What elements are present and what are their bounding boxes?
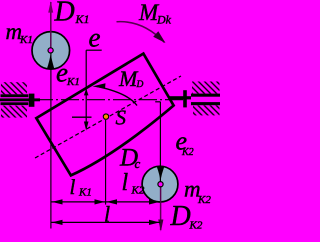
- svg-text:D: D: [54, 0, 75, 28]
- S center of mass dot: [103, 114, 108, 119]
- e arrow down: [84, 122, 89, 131]
- lK1 left arrowhead: [52, 199, 63, 204]
- mass circle K2: [142, 166, 178, 202]
- right bearing hatch top: [192, 82, 220, 94]
- e arrow up: [84, 89, 89, 96]
- right journal: [183, 90, 187, 107]
- svg-text:Dk: Dk: [156, 13, 172, 27]
- svg-text:S: S: [116, 105, 127, 129]
- svg-text:D: D: [170, 201, 191, 232]
- D_K2 arrowhead: [158, 220, 163, 232]
- right bearing bottom bar: [191, 102, 220, 105]
- rotor body rectangle: [36, 54, 173, 176]
- svg-text:l: l: [70, 175, 76, 199]
- l left arrowhead: [52, 220, 63, 225]
- svg-text:K2: K2: [189, 220, 203, 232]
- lK2 right arrowhead: [149, 199, 160, 204]
- moment arc M_Dk: [117, 22, 165, 43]
- svg-text:D: D: [136, 80, 144, 90]
- lK1 right arrowhead: [95, 199, 105, 204]
- svg-text:l: l: [104, 201, 110, 226]
- arrowhead M_Dk: [153, 31, 165, 43]
- left bearing hatch top: [1, 82, 27, 94]
- K2 hub hole: [158, 182, 163, 187]
- K1 hub hole: [48, 48, 53, 53]
- K1 vertical line upper (D_K1 stem): [50, 2, 52, 48]
- K2 wedge sector: [157, 167, 164, 182]
- left shaft: [0, 98, 40, 101]
- svg-text:K1: K1: [66, 76, 80, 88]
- K2 vertical line lower (D_K2 stem): [160, 187, 162, 230]
- rotor principal axis dashed: [35, 76, 181, 158]
- right bearing hatch bottom: [193, 105, 220, 115]
- D_K1 arrowhead: [48, 1, 53, 12]
- shaft axis dash-dot: [35, 99, 183, 101]
- svg-text:K2: K2: [197, 194, 211, 206]
- svg-text:K2: K2: [131, 185, 145, 197]
- dimension row A line lK2: [106, 201, 161, 203]
- right shaft: [169, 96, 192, 99]
- svg-text:l: l: [122, 170, 129, 196]
- left bearing bottom bar: [1, 102, 29, 105]
- left journal: [29, 94, 35, 107]
- svg-text:K2: K2: [181, 147, 194, 158]
- e_K2 bracket: [155, 101, 160, 103]
- dimension row B line l: [51, 221, 160, 223]
- left bearing hatch bottom: [1, 106, 27, 118]
- right bearing top bar: [191, 94, 220, 97]
- l right arrowhead: [149, 220, 160, 225]
- moment arc M_D: [97, 86, 138, 105]
- K1 wedge sector: [47, 53, 54, 69]
- e dimension bracket: [86, 49, 102, 51]
- svg-text:e: e: [89, 23, 101, 53]
- K1 vertical line lower: [50, 53, 52, 229]
- arrowhead M_D: [93, 83, 106, 89]
- svg-text:K1: K1: [75, 12, 90, 26]
- S horizontal line: [72, 116, 92, 118]
- svg-text:c: c: [135, 156, 141, 171]
- extension line below S: [105, 120, 107, 205]
- left bearing top bar: [1, 94, 29, 97]
- dimension row A line lK1: [51, 201, 106, 203]
- mass circle K1: [32, 32, 70, 70]
- lK2 left arrowhead: [106, 199, 117, 204]
- svg-text:K1: K1: [19, 34, 33, 46]
- svg-text:K1: K1: [78, 187, 92, 199]
- K2 vertical line (e_K2 stem): [159, 102, 161, 182]
